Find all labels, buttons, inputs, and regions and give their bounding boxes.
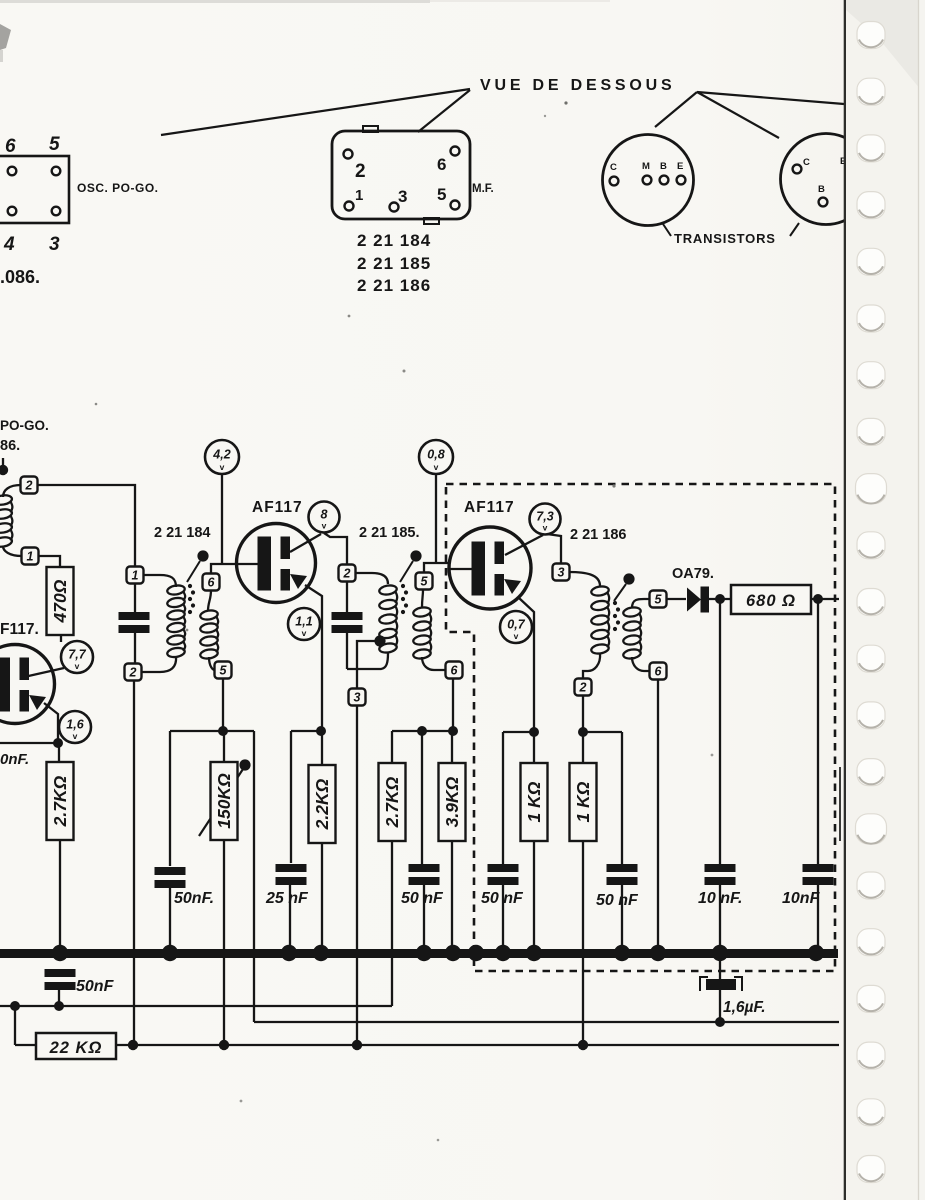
bus junction dot x453	[445, 945, 461, 961]
wire rail3 to 50nF#2	[421, 731, 423, 864]
svg-text:50nF.: 50nF.	[174, 890, 214, 907]
MF can bottom tab	[424, 218, 439, 224]
MF pin 1 circle	[345, 202, 354, 211]
wire cap2 down	[346, 631, 348, 669]
IF3 primary bottom to pin2	[583, 653, 600, 679]
svg-text:M.F.: M.F.	[472, 183, 494, 195]
junction dot rail4b	[578, 727, 588, 737]
resistor 680ohm	[731, 585, 811, 614]
wire 7,3 to pin3	[547, 534, 561, 564]
transistor view 2 pin C	[793, 165, 802, 174]
label 221186 list	[357, 276, 431, 295]
connector pin 5 circle	[52, 167, 61, 176]
wire 470 to collector circle	[60, 635, 62, 642]
label 50nF stage1	[174, 890, 214, 907]
capacitor 10nF first	[705, 864, 736, 885]
wire 4,2 to base junction	[221, 474, 223, 564]
svg-text:3: 3	[354, 691, 361, 705]
svg-text:6: 6	[437, 155, 446, 174]
pin box 5 (IF2 sec top)	[416, 573, 433, 590]
IF3 secondary bottom to pin6	[632, 657, 649, 671]
label 50nF stage4	[596, 892, 639, 909]
bus junction dot x424	[416, 945, 432, 961]
resistor 470ohm	[47, 567, 74, 635]
label F117.	[0, 621, 39, 638]
MF can outline	[332, 131, 470, 219]
capacitor 25nF	[276, 864, 307, 885]
resistor 22Kohm	[36, 1033, 116, 1059]
emitter wire Q2	[305, 585, 322, 729]
wire 150K to AGC line	[223, 840, 225, 1045]
AGC junction dot x224	[219, 1040, 229, 1050]
wire 1.6uF to line B	[719, 990, 721, 1022]
line A (AVC upper)	[0, 1005, 392, 1007]
svg-text:2.7KΩ: 2.7KΩ	[50, 775, 70, 827]
label 10nF first	[698, 890, 742, 907]
MF pin 5 circle	[451, 201, 460, 210]
label 50nF below bus	[76, 978, 115, 995]
electrolytic 1.6uF	[700, 977, 742, 991]
svg-text:AF117: AF117	[252, 499, 303, 516]
transistor view 1 outline	[603, 135, 694, 226]
svg-text:1: 1	[27, 550, 34, 564]
capacitor IF1 tuning	[119, 612, 150, 633]
wire pin6 to rail3	[452, 679, 454, 729]
wire rail4a to 1K	[533, 732, 535, 764]
rail1 wire	[170, 730, 254, 732]
rail3 wire	[392, 730, 453, 732]
transistor view 1 pin M	[643, 176, 652, 185]
wire 3.9K to bus	[451, 841, 453, 951]
svg-text:0,7: 0,7	[507, 618, 525, 632]
svg-text:1,6: 1,6	[66, 718, 84, 732]
capacitor 50nF stage2	[409, 864, 440, 885]
AGC junction dot x357	[352, 1040, 362, 1050]
IF3 secondary top to pin5	[632, 599, 649, 608]
wire rail4a to 50nF#3	[502, 732, 504, 864]
svg-text:5: 5	[220, 664, 228, 678]
svg-text:B: B	[818, 184, 825, 195]
svg-text:v: v	[73, 731, 78, 741]
label 221185.	[359, 525, 419, 541]
IF3 primary coil	[591, 585, 610, 654]
tick to TRANSISTORS left	[663, 224, 671, 236]
AGC junction dot x133	[128, 1040, 138, 1050]
MF pin label 2	[355, 161, 366, 182]
svg-text:1,6µF.: 1,6µF.	[723, 999, 766, 1016]
pin box 6 (IF2 sec bottom)	[446, 662, 463, 679]
pin box 3 (IF2)	[349, 689, 366, 706]
pin box 6 (IF3 sec bottom)	[650, 663, 667, 680]
svg-text:6: 6	[655, 665, 663, 679]
wire 50nF#2 to bus	[423, 883, 425, 951]
label TRANSISTORS	[674, 231, 776, 246]
svg-text:5: 5	[49, 134, 60, 155]
IF1 secondary coil	[200, 609, 219, 659]
transistor view 1 pin C	[610, 177, 619, 186]
label 221184 list	[357, 231, 431, 250]
bus junction dot x476	[468, 945, 484, 961]
wire pin5 to base Q3	[424, 563, 449, 573]
IF2 tuning slug line	[400, 561, 413, 582]
svg-text:F117.: F117.	[0, 621, 39, 638]
label VUE DE DESSOUS	[480, 77, 675, 94]
junction dot AVC left	[54, 1001, 64, 1011]
svg-text:2 21 184: 2 21 184	[357, 231, 431, 250]
svg-text:2: 2	[129, 666, 137, 680]
line B (detector return)	[254, 1021, 839, 1023]
IF2 secondary bottom to pin6	[422, 657, 446, 670]
capacitor 50nF below bus left	[45, 969, 76, 990]
capacitor 50nF stage4	[607, 864, 638, 885]
diode OA79	[687, 587, 709, 613]
MF pin 2 circle	[344, 150, 353, 159]
wire 1K#2 to AGC line	[582, 841, 584, 1045]
connector pin 6 circle	[8, 167, 17, 176]
svg-text:1: 1	[132, 569, 139, 583]
label 10nF second	[782, 890, 821, 907]
svg-text:2.7KΩ: 2.7KΩ	[382, 776, 402, 828]
scan specks	[95, 101, 714, 1141]
wire rail3 to 3.9K	[451, 731, 453, 764]
rail4b wire	[583, 731, 622, 733]
label 86.	[0, 438, 20, 454]
voltage circle 7,7	[61, 641, 93, 673]
IF2 tap dot	[374, 635, 385, 646]
pin box 2 (IF3 bottom)	[575, 679, 592, 696]
wire IF1 primary bottom to pin2	[141, 656, 176, 672]
wire lineA to AGC	[14, 1006, 16, 1045]
dashed box stage3	[446, 484, 835, 971]
wire 7,7 into transistor base	[24, 668, 64, 677]
pin box 6 (IF1 sec top)	[203, 574, 220, 591]
svg-text:M: M	[642, 161, 650, 172]
IF1 tuning dot	[197, 550, 208, 561]
resistor 2.7Kohm stage2	[379, 763, 406, 841]
wire diode to junction	[709, 598, 731, 600]
svg-text:OSC. PO-GO.: OSC. PO-GO.	[77, 181, 159, 195]
rail2 wire	[291, 730, 322, 732]
svg-text:22 KΩ: 22 KΩ	[49, 1039, 103, 1057]
svg-text:6: 6	[5, 136, 16, 157]
label OA79.	[672, 566, 714, 582]
svg-text:5: 5	[421, 575, 429, 589]
svg-text:7,3: 7,3	[536, 510, 553, 524]
IF1 core dots	[188, 584, 195, 614]
svg-text:PO-GO.: PO-GO.	[0, 418, 49, 433]
svg-text:5: 5	[655, 593, 663, 607]
svg-text:v: v	[514, 631, 519, 641]
bus junction dot x170	[162, 945, 178, 961]
pin label 6	[5, 136, 16, 157]
svg-text:6: 6	[208, 576, 216, 590]
IF1 secondary bottom to pin5	[209, 657, 215, 670]
MF pin 3 circle	[390, 203, 399, 212]
label 50nF left clipped	[0, 751, 29, 768]
bus junction dot x658	[650, 945, 666, 961]
wire IF2 bottom link	[347, 653, 388, 669]
svg-text:2 21 186: 2 21 186	[570, 527, 626, 543]
label OSC.PO-GO	[77, 181, 159, 195]
pointer line off right	[697, 92, 844, 104]
wire 50nF#4 to bus	[621, 883, 623, 951]
resistor 150Kohm trimmer	[199, 759, 251, 840]
svg-text:AF117: AF117	[464, 499, 515, 516]
emitter wire Q1	[44, 703, 58, 740]
label 50nF stage3	[481, 890, 524, 907]
connector pin 4 circle	[8, 207, 17, 216]
line C AGC left	[15, 1044, 36, 1046]
label 1,6uF	[723, 999, 766, 1016]
wire rail4b to 1K2	[582, 732, 584, 764]
wire 10nF to bus	[719, 883, 721, 951]
wire base Q2	[211, 564, 238, 575]
resistor 1Kohm first	[521, 763, 548, 841]
IF2 secondary top to pin5	[422, 590, 423, 608]
wire rail1 to 150K	[223, 731, 225, 763]
svg-text:v: v	[302, 628, 307, 638]
bus junction dot x720	[712, 945, 728, 961]
wire pin5 down to rail1	[222, 679, 224, 729]
pin label 3	[49, 234, 60, 255]
label AF117 (Q3)	[464, 499, 515, 516]
label 25nF	[265, 890, 309, 907]
svg-text:470Ω: 470Ω	[50, 579, 70, 623]
wire collector to IF2 pin2	[324, 533, 347, 565]
wire 50nF#3 to bus	[502, 883, 504, 951]
capacitor IF2 tuning	[332, 612, 363, 633]
svg-text:2.2KΩ: 2.2KΩ	[312, 778, 332, 830]
AGC junction dot x583	[578, 1040, 588, 1050]
IF2 core dots	[401, 584, 408, 614]
pin box 2 (IF1 bottom)	[125, 664, 142, 681]
pin label 5	[49, 134, 60, 155]
capacitor 50nF stage3	[488, 864, 519, 885]
rail4a wire	[503, 731, 534, 733]
bus junction dot x534	[526, 945, 542, 961]
wire pin2 to cap2	[346, 582, 348, 612]
junction dot 680 right	[813, 594, 823, 604]
junction dot emitter Q1	[53, 738, 63, 748]
svg-text:3: 3	[49, 234, 60, 255]
svg-text:OA79.: OA79.	[672, 566, 714, 582]
wire pin2 to rail4b	[582, 696, 584, 730]
label 221185 list	[357, 254, 431, 273]
transistor view 2 pin B	[819, 198, 828, 207]
oscillator coil L1	[0, 494, 13, 548]
label AF117 (Q2)	[252, 499, 303, 516]
label 221186	[570, 527, 626, 543]
transistor view 1 letters	[610, 161, 683, 173]
svg-text:150KΩ: 150KΩ	[214, 773, 234, 829]
svg-text:25 nF: 25 nF	[265, 890, 309, 907]
wire IF1 pin1 to primary	[143, 575, 176, 587]
svg-text:2: 2	[343, 567, 351, 581]
IF2 tuning dot	[410, 550, 421, 561]
MF pin label 5	[437, 185, 446, 204]
bus junction dot x503	[495, 945, 511, 961]
transistor Q1 AF117 (left, clipped)	[0, 645, 55, 724]
svg-text:6: 6	[451, 664, 459, 678]
svg-text:50 nF: 50 nF	[401, 890, 444, 907]
pin box 1 (IF1 top)	[127, 567, 144, 584]
svg-text:8: 8	[321, 508, 328, 522]
resistor 2.7Kohm (Q1 emitter)	[47, 762, 74, 840]
voltage circle 8	[309, 502, 340, 533]
pin label 4	[3, 234, 15, 255]
resistor 2.2Kohm	[309, 765, 336, 843]
wire pin3 to IF3 primary	[569, 572, 600, 586]
svg-text:3.9KΩ: 3.9KΩ	[442, 776, 462, 827]
wire y669 to pin3	[356, 669, 358, 689]
wire rail1 to line B	[253, 731, 255, 1022]
collector diagonal Q3	[505, 535, 543, 555]
transistor view 1 pin B	[660, 176, 669, 185]
MF pin label 6	[437, 155, 446, 174]
pointer line to transistor view 1	[655, 92, 697, 127]
resistor 3.9Kohm	[439, 763, 466, 841]
junction dot rail2	[316, 726, 326, 736]
svg-text:2 21 184: 2 21 184	[154, 525, 210, 541]
MF can top tab	[363, 126, 378, 132]
voltage circle 7,3	[530, 504, 561, 535]
page edge shadow line	[844, 0, 847, 1200]
junction dot rail1	[218, 726, 228, 736]
wire 2.7K to bus	[59, 840, 61, 951]
transistor view 2 outline	[781, 134, 872, 225]
IF3 tuning slug line	[614, 584, 626, 601]
svg-text:C: C	[803, 157, 810, 168]
transistor view 1 pin E	[677, 176, 686, 185]
wire bus to 1.6uF	[719, 957, 721, 979]
pin box 2 (IF2 top)	[339, 565, 356, 582]
line C AGC right	[116, 1044, 839, 1046]
svg-text:5: 5	[437, 185, 446, 204]
svg-text:1 KΩ: 1 KΩ	[573, 781, 593, 822]
wire 0,8 to base junction	[435, 474, 437, 563]
bus junction dot x816	[808, 945, 824, 961]
wire 2.2K to bus	[321, 843, 323, 951]
svg-text:1: 1	[355, 187, 363, 204]
wire pin3 down to AGC line	[356, 706, 358, 1045]
junction dot diode out	[715, 594, 725, 604]
connector OSC.PO-GO outline	[0, 156, 69, 223]
svg-text:v: v	[220, 462, 225, 472]
transistor Q2 AF117	[237, 524, 316, 603]
MF pin 6 circle	[451, 147, 460, 156]
label 50nF stage2	[401, 890, 444, 907]
voltage circle 1,6	[59, 711, 91, 743]
svg-text:3: 3	[398, 187, 407, 206]
wire diode junction to 10nF	[719, 599, 721, 864]
svg-text:2: 2	[579, 681, 587, 695]
svg-text:TRANSISTORS: TRANSISTORS	[674, 231, 776, 246]
junction dot rail3 mid	[417, 726, 427, 736]
pin box 3 (IF3 top)	[553, 564, 570, 581]
transistor view 2 letters	[803, 156, 846, 195]
wire 680 junction to 10nF#2	[817, 599, 819, 864]
voltage circle 0,7	[500, 611, 532, 643]
wire rail2 to 25nF	[290, 731, 292, 863]
wire 2.7K#2 to AVC line	[391, 841, 393, 1006]
svg-text:50 nF: 50 nF	[596, 892, 639, 909]
svg-text:0,8: 0,8	[427, 448, 444, 462]
voltage circle 0,8	[419, 440, 453, 474]
wire osc pin1 to R 470	[38, 556, 60, 567]
pin box 5 (IF1 sec bottom)	[215, 662, 232, 679]
label PO-GO.	[0, 418, 49, 433]
emitter wire Q3	[519, 598, 534, 730]
svg-text:E: E	[677, 161, 683, 172]
svg-text:1 KΩ: 1 KΩ	[524, 781, 544, 822]
svg-text:10nF: 10nF	[782, 890, 821, 907]
binder strip	[846, 0, 925, 1200]
svg-text:86.: 86.	[0, 438, 20, 454]
wire emitter dot to 2.7K	[58, 743, 60, 763]
label M.F.	[472, 183, 494, 195]
svg-text:2: 2	[25, 479, 33, 493]
wire pin6 to bus	[657, 680, 659, 951]
wire cap to pin2	[134, 631, 136, 664]
capacitor 10nF second	[803, 864, 834, 885]
wire coil top to pin box 2	[3, 485, 21, 497]
svg-text:3: 3	[558, 566, 565, 580]
collector diagonal Q2	[290, 534, 321, 552]
wire pin5 to diode	[667, 598, 686, 600]
scan top edge shading	[0, 0, 610, 3]
scan artifact line right	[839, 767, 841, 841]
pointer line to transistor view 2	[697, 92, 779, 138]
transistor Q3 AF117	[449, 527, 531, 609]
tick to TRANSISTORS right	[790, 223, 799, 236]
wire IF2 pin2 to primary	[355, 573, 388, 584]
wire cap to AVC junction	[58, 989, 60, 1006]
svg-text:C: C	[610, 162, 617, 173]
scan corner mark top-left	[0, 24, 11, 62]
voltage circle 4,2	[205, 440, 239, 474]
wire 1K to bus	[533, 841, 535, 951]
wire rail1 to 50nF cap	[169, 731, 171, 866]
IF1 primary coil	[167, 584, 186, 658]
IF3 tuning dot	[623, 573, 634, 584]
IF2 tap wire	[357, 641, 380, 668]
svg-text:2: 2	[355, 161, 366, 182]
svg-text:VUE DE DESSOUS: VUE DE DESSOUS	[480, 77, 675, 94]
IF2 primary coil	[379, 584, 398, 653]
svg-text:2 21 185: 2 21 185	[357, 254, 431, 273]
MF pin label 3	[398, 187, 407, 206]
svg-text:2 21 186: 2 21 186	[357, 276, 431, 295]
wire coil bottom to pin box 1	[3, 546, 22, 556]
wire 680 to right	[811, 598, 839, 600]
svg-text:v: v	[75, 661, 80, 671]
wire 10nF#2 to bus	[817, 883, 819, 951]
wire rail3 to 2.7K	[391, 731, 393, 763]
connector pin 3 circle	[52, 207, 61, 216]
svg-text:.086.: .086.	[0, 267, 40, 287]
voltage circle 1,1	[288, 608, 320, 640]
svg-text:0nF.: 0nF.	[0, 751, 29, 768]
IF1 tuning slug line	[187, 561, 200, 582]
IF2 secondary coil	[413, 606, 432, 659]
wire rail2 to 2.2K	[321, 731, 323, 766]
bus junction dot x60	[52, 945, 68, 961]
ground bus (thick)	[0, 949, 838, 958]
wire pin1 to cap	[134, 584, 136, 612]
MF pin label 1	[355, 187, 363, 204]
svg-text:4,2: 4,2	[212, 448, 230, 462]
svg-text:7,7: 7,7	[68, 648, 86, 662]
